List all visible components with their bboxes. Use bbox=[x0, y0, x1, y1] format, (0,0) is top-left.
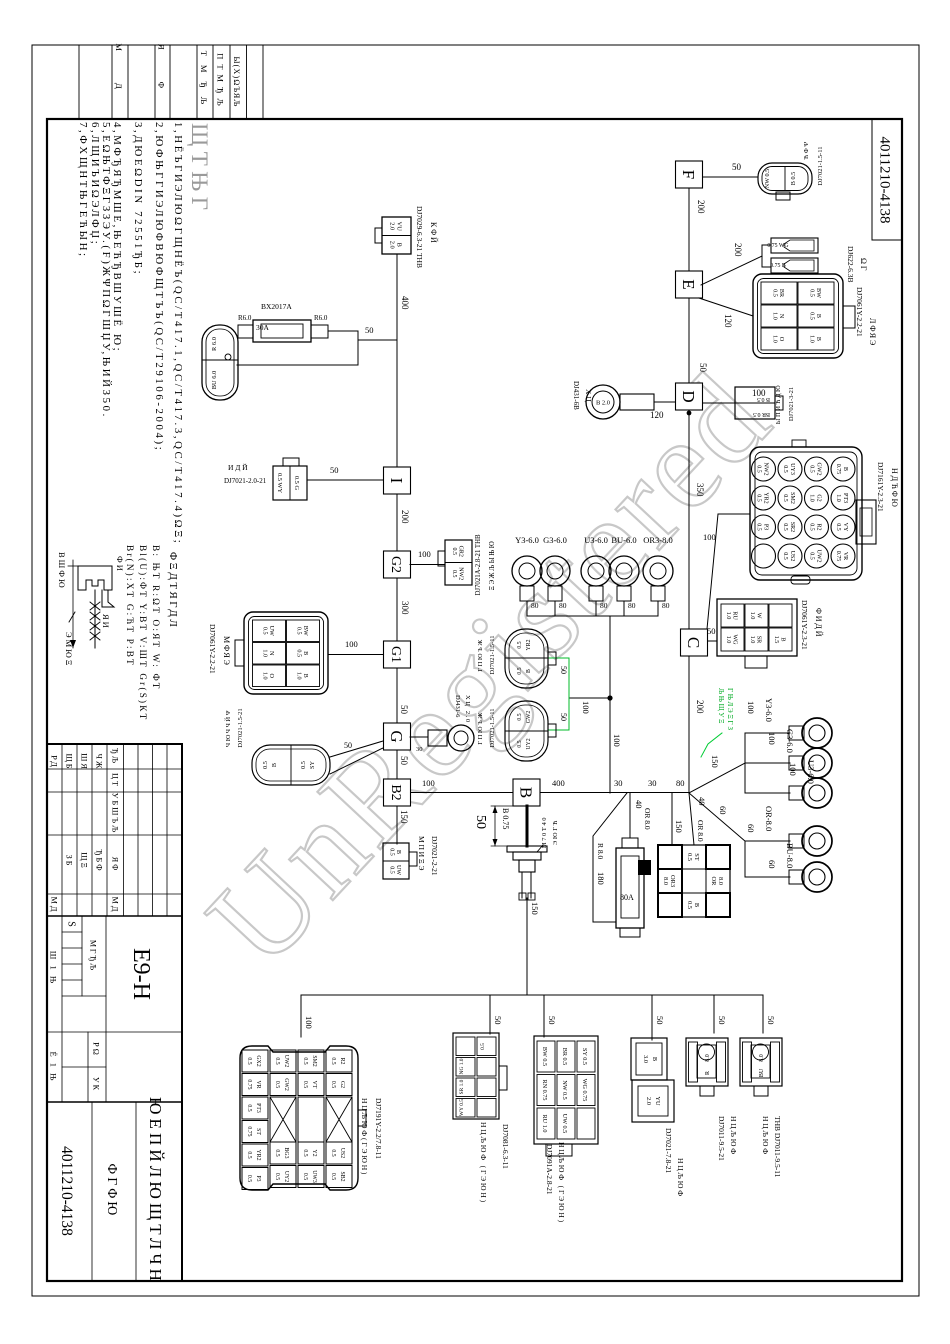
svg-text:РΩ: РΩ bbox=[92, 1042, 101, 1057]
svg-text:DJ622-6.3B: DJ622-6.3B bbox=[846, 246, 855, 282]
pin circle r3c2 bbox=[778, 486, 802, 510]
svg-text:0.5: 0.5 bbox=[302, 1149, 308, 1156]
svg-text:30: 30 bbox=[648, 778, 657, 788]
9pin cell r3c3 bbox=[537, 1108, 555, 1139]
pin circle r1c3 bbox=[831, 515, 855, 539]
svg-text:0.5: 0.5 bbox=[330, 1149, 336, 1156]
svg-text:50: 50 bbox=[547, 1016, 557, 1025]
19pin cell r2-2 bbox=[298, 1074, 324, 1096]
svg-text:50: 50 bbox=[732, 162, 742, 172]
19pin cell r4-1 bbox=[242, 1050, 268, 1072]
svg-text:0.5: 0.5 bbox=[330, 1081, 336, 1088]
svg-text:ΦΞДТЯГДЛ: ΦΞДТЯГДЛ bbox=[167, 552, 179, 629]
svg-text:0.5: 0.5 bbox=[274, 1057, 280, 1064]
svg-text:DJ7029-6.3-21 THB: DJ7029-6.3-21 THB bbox=[415, 206, 424, 268]
svg-text:BW0.5: BW0.5 bbox=[808, 288, 822, 298]
svg-text:0.5: 0.5 bbox=[246, 1175, 252, 1182]
svg-text:МД: МД bbox=[50, 897, 59, 914]
svg-text:100: 100 bbox=[746, 701, 756, 714]
svg-text:BG3: BG3 bbox=[283, 1148, 289, 1159]
svg-text:DJ7021-1.5-11: DJ7021-1.5-11 bbox=[489, 709, 496, 748]
svg-text:МД: МД bbox=[114, 43, 124, 120]
node C bbox=[681, 629, 708, 656]
svg-text:150: 150 bbox=[399, 810, 409, 824]
svg-text:G3-6.0: G3-6.0 bbox=[543, 535, 567, 545]
svg-text:40: 40 bbox=[634, 800, 644, 809]
green wire to starter connectors bbox=[568, 658, 570, 730]
drawing number box top-left bbox=[872, 119, 902, 240]
svg-text:B 0.5: B 0.5 bbox=[790, 172, 797, 185]
svg-text:0.5: 0.5 bbox=[330, 1057, 336, 1064]
junction J1 diagonals to ring group A bbox=[689, 763, 745, 793]
svg-text:МПИΞЭ: МПИΞЭ bbox=[417, 836, 426, 872]
svg-text:400: 400 bbox=[552, 778, 565, 788]
svg-text:100: 100 bbox=[767, 732, 777, 745]
svg-text:ГЊЛЭΞГЗ: ГЊЛЭΞГЗ bbox=[726, 688, 734, 732]
connector DJ7191Y-2.2/7.8-11 接室内线束 19-pin bbox=[240, 1046, 358, 1190]
svg-text:400: 400 bbox=[400, 296, 410, 310]
tab of 9-pin bbox=[546, 1144, 572, 1156]
svg-text:0.75: 0.75 bbox=[246, 1126, 252, 1136]
8pin cell top 2 bbox=[477, 1058, 496, 1077]
svg-text:ПТМЂЉ: ПТМЂЉ bbox=[216, 53, 226, 111]
8pin cell bottom 3 bbox=[456, 1078, 475, 1097]
latch of 右前大灯 bbox=[843, 306, 855, 328]
svg-text:B 2.0: B 2.0 bbox=[596, 400, 610, 407]
svg-text:50: 50 bbox=[473, 815, 488, 829]
junction dot J2 bbox=[607, 695, 612, 700]
svg-text:120: 120 bbox=[723, 314, 733, 328]
grommet 过线胶圈 bbox=[507, 846, 547, 852]
svg-text:D: D bbox=[679, 390, 698, 402]
svg-text:0.5 G: 0.5 G bbox=[293, 476, 300, 491]
svg-text:0.5: 0.5 bbox=[246, 1151, 252, 1158]
svg-text:50: 50 bbox=[698, 363, 708, 373]
connector 启动器控制 DJ7021-1.5-11 (A) bbox=[505, 629, 548, 688]
svg-text:ТМЂЉ: ТМЂЉ bbox=[199, 51, 209, 113]
wire stub to ring OR-8.0 bbox=[745, 840, 790, 842]
svg-text:0.5 WY: 0.5 WY bbox=[276, 473, 283, 494]
svg-text:ΞЭЖЉЫЊЮ: ΞЭЖЉЫЊЮ bbox=[489, 540, 496, 591]
pin circle r1c2 bbox=[831, 486, 855, 510]
svg-text:ЗБ: ЗБ bbox=[65, 855, 74, 868]
notches of 16-pin connector bbox=[792, 440, 806, 447]
wire J4 to relay block (150) bbox=[671, 793, 673, 845]
wire D to ground ring 搭铁 bbox=[654, 401, 675, 403]
svg-text:ЮЕПЙЛЮЩТЛЧН: ЮЕПЙЛЮЩТЛЧН bbox=[146, 1097, 165, 1285]
svg-text:W1.0: W1.0 bbox=[749, 612, 763, 620]
svg-text:ЩΞ: ЩΞ bbox=[80, 852, 89, 870]
svg-text:DJ7021-2.0-21: DJ7021-2.0-21 bbox=[224, 477, 267, 485]
connector 接电喷附线 DJ7161Y-2.3-21 (16-pin) bbox=[750, 447, 862, 580]
svg-text:WG 0.75: WG 0.75 bbox=[581, 1079, 588, 1102]
pin circle r1c4 bbox=[831, 544, 855, 568]
19pin cell r1-4 bbox=[326, 1142, 352, 1164]
svg-text:50: 50 bbox=[330, 465, 339, 475]
svg-text:R 8.0: R 8.0 bbox=[596, 843, 605, 860]
horn bracket wire bbox=[762, 245, 771, 267]
svg-text:80: 80 bbox=[559, 601, 567, 610]
19pin cell r2-4 bbox=[298, 1142, 324, 1164]
ring terminal OR3-8.0 bbox=[643, 556, 673, 586]
svg-text:Ё 1 Њ: Ё 1 Њ bbox=[49, 1051, 59, 1082]
svg-text:80: 80 bbox=[531, 601, 539, 610]
svg-text:Ш 1 Њ: Ш 1 Њ bbox=[49, 951, 59, 986]
wire J2 down to green branch bbox=[569, 697, 610, 699]
node B bbox=[513, 779, 540, 806]
svg-text:150: 150 bbox=[530, 902, 540, 915]
svg-text:G: G bbox=[387, 730, 406, 742]
thick wire B 0.75 from node B bbox=[526, 806, 529, 846]
svg-text:NG 1.0: NG 1.0 bbox=[459, 1058, 465, 1074]
svg-text:3,ДЮЕΩDIN 72551ЂБ;: 3,ДЮЕΩDIN 72551ЂБ; bbox=[132, 122, 144, 276]
latch of wiper connector bbox=[745, 656, 767, 668]
inner drawing frame bbox=[47, 119, 902, 1281]
svg-text:1,НЁЪГИЭЛЮΩГЩНЁЪ(QC/T417.1,QC/: 1,НЁЪГИЭЛЮΩГЩНЁЪ(QC/T417.1,QC/T417.3,QC/… bbox=[172, 122, 184, 545]
svg-text:B: B bbox=[271, 763, 278, 767]
svg-text:VR: VR bbox=[255, 1080, 261, 1088]
latch of 16-pin connector bbox=[856, 500, 876, 544]
svg-text:МФЯЭ: МФЯЭ bbox=[222, 636, 231, 667]
pin circle r4c1 bbox=[752, 457, 776, 481]
9pin cell r2c3 bbox=[557, 1108, 575, 1139]
19pin cell r2-5 bbox=[298, 1166, 324, 1188]
19pin cell r3-1 bbox=[270, 1050, 296, 1072]
blade terminal 喇叭 0.75 WG bbox=[771, 238, 818, 253]
svg-text:DJ7021-1.5-21: DJ7021-1.5-21 bbox=[237, 708, 244, 747]
terminal R 6.0 / BU 6.0 (oval connector) bbox=[202, 325, 238, 400]
9pin cell r2c2 bbox=[557, 1075, 575, 1106]
svg-text:YU: YU bbox=[654, 1096, 661, 1106]
dimension limit label 尺寸界限 bbox=[72, 560, 74, 648]
tab of 8-pin bbox=[499, 1066, 507, 1090]
svg-text:150: 150 bbox=[710, 755, 720, 768]
svg-text:ST0.5: ST0.5 bbox=[686, 853, 700, 861]
svg-text:BU-8.0: BU-8.0 bbox=[785, 843, 795, 868]
svg-text:0.5: 0.5 bbox=[517, 641, 523, 648]
pin circle r2c4 bbox=[805, 544, 829, 568]
wire rail2 fan-I bbox=[396, 254, 398, 467]
8pin cell bottom 4 bbox=[456, 1099, 475, 1118]
svg-text:50: 50 bbox=[717, 1016, 727, 1025]
svg-text:NW 0.5: NW 0.5 bbox=[561, 1080, 568, 1099]
svg-text:30A: 30A bbox=[256, 323, 270, 332]
ring terminal G3-6.0 bbox=[802, 748, 832, 778]
connector 冷风机 DJ7029-6.3-21 THB bbox=[382, 217, 411, 254]
wire rail1 C-J1 bbox=[688, 656, 690, 793]
wire I to charger (50) bbox=[307, 479, 383, 481]
svg-text:200: 200 bbox=[696, 200, 706, 214]
connector DJ7011-9.5-11 接室内线束 THB (8.0 BU) bbox=[740, 1038, 782, 1086]
svg-text:0.5: 0.5 bbox=[517, 740, 523, 747]
svg-text:SR 1.0: SR 1.0 bbox=[459, 1079, 465, 1094]
wire F to washer connector bbox=[703, 176, 758, 178]
svg-text:НЦЉЮФ (ГЭЮН): НЦЉЮФ (ГЭЮН) bbox=[479, 1122, 488, 1204]
latch of 左前大灯 bbox=[235, 640, 244, 666]
svg-text:YR2: YR2 bbox=[255, 1150, 261, 1161]
wire grommet to bus (150) bbox=[526, 898, 528, 995]
svg-text:8.0: 8.0 bbox=[759, 1054, 765, 1062]
small circle between terminals bbox=[225, 354, 231, 360]
svg-text:ГПЮЪЖ: ГПЮЪЖ bbox=[477, 711, 484, 745]
svg-text:B: B bbox=[526, 669, 532, 673]
svg-text:РД: РД bbox=[50, 755, 59, 769]
svg-text:ЉЊЩУΞ: ЉЊЩУΞ bbox=[717, 688, 725, 725]
svg-text:8.0: 8.0 bbox=[705, 1054, 711, 1062]
svg-text:ΩГ: ΩГ bbox=[859, 258, 868, 272]
svg-text:BR 0.5: BR 0.5 bbox=[753, 411, 770, 417]
svg-text:МГЂЉ: МГЂЉ bbox=[89, 940, 98, 972]
svg-text:ΦИДЙ: ΦИДЙ bbox=[814, 608, 823, 638]
svg-text:100: 100 bbox=[345, 639, 358, 649]
svg-text:UY2: UY2 bbox=[526, 738, 532, 749]
svg-text:P3: P3 bbox=[255, 1175, 261, 1181]
svg-text:50: 50 bbox=[559, 713, 568, 721]
connector DJ7011-9.5-21 接室内线束 (8.0 R) bbox=[686, 1038, 728, 1086]
wire rail1 E-D bbox=[688, 298, 690, 383]
8pin cell bottom 1 bbox=[456, 1037, 475, 1056]
wire stub to ring Y3-6.0 bbox=[745, 732, 790, 734]
svg-text:PT31.0: PT31.0 bbox=[835, 493, 848, 503]
ring terminal U3-6.0 bbox=[581, 556, 611, 586]
bus line to cabin connectors bbox=[301, 994, 763, 996]
9pin cell r1c2 bbox=[577, 1075, 595, 1106]
svg-text:ЂБФ: ЂБФ bbox=[95, 849, 104, 872]
svg-text:0.5: 0.5 bbox=[517, 713, 523, 720]
svg-text:GX2: GX2 bbox=[255, 1055, 261, 1066]
pin circle r2c1 bbox=[805, 457, 829, 481]
svg-text:DJ7161Y-2.3-21: DJ7161Y-2.3-21 bbox=[876, 462, 885, 512]
svg-text:US20.5: US20.5 bbox=[782, 551, 795, 562]
wire C to wiper motor bbox=[708, 640, 718, 642]
svg-text:DJ7021-1.5-11: DJ7021-1.5-11 bbox=[489, 636, 496, 675]
19pin cell r3-4 bbox=[270, 1142, 296, 1164]
svg-text:G2: G2 bbox=[339, 1081, 345, 1088]
wires G to 刹车油位指示 bbox=[330, 741, 383, 757]
svg-text:ЛФЯЭ: ЛФЯЭ bbox=[868, 318, 877, 347]
wire rail2 G-B2 bbox=[396, 750, 398, 779]
svg-text:ВШФЮ: ВШФЮ bbox=[57, 552, 67, 590]
connector 左前大灯 DJ7061Y-2.2-21 (6-pin) bbox=[244, 612, 328, 694]
relay/fuse block (ST/OR3/OR/B) bbox=[658, 845, 730, 917]
node D bbox=[676, 383, 703, 410]
svg-text:100: 100 bbox=[418, 549, 431, 559]
wire vertical rail J1-B bbox=[540, 792, 689, 794]
svg-text:80A: 80A bbox=[620, 893, 634, 902]
svg-text:Y2: Y2 bbox=[311, 1149, 317, 1156]
connector 充电机 DJ7021-2.0-21 bbox=[273, 466, 307, 500]
svg-text:60: 60 bbox=[718, 806, 728, 815]
svg-text:GW2: GW2 bbox=[283, 1078, 289, 1091]
bracket line of 5-ring column bbox=[527, 615, 658, 617]
wire D to starter relay connector bbox=[703, 402, 736, 404]
svg-text:0.75 WG: 0.75 WG bbox=[767, 243, 788, 249]
svg-text:BW0.5: BW0.5 bbox=[295, 626, 309, 636]
ground stub bbox=[428, 730, 447, 746]
svg-text:0.5: 0.5 bbox=[300, 761, 307, 769]
svg-text:ЂЉ: ЂЉ bbox=[111, 748, 120, 765]
svg-text:2.0: 2.0 bbox=[645, 1097, 652, 1105]
svg-text:BX2017A: BX2017A bbox=[261, 302, 292, 311]
svg-text:200: 200 bbox=[695, 700, 705, 714]
svg-text:B 0.75: B 0.75 bbox=[501, 808, 510, 829]
19pin cell r3-2 bbox=[270, 1074, 296, 1096]
pin circle r2c3 bbox=[805, 515, 829, 539]
svg-text:UY2: UY2 bbox=[283, 1171, 289, 1182]
pin circle r4c3 bbox=[752, 515, 776, 539]
svg-text:НДЋΦЮ: НДЋΦЮ bbox=[890, 468, 899, 509]
svg-text:DJ7191Y-2.2/7.8-11: DJ7191Y-2.2/7.8-11 bbox=[374, 1098, 383, 1159]
svg-text:BR 0.5: BR 0.5 bbox=[561, 1048, 568, 1066]
latch of 19-pin bbox=[358, 1110, 366, 1126]
svg-text:ЧЖ: ЧЖ bbox=[95, 754, 104, 771]
svg-text:3.0: 3.0 bbox=[642, 1055, 649, 1063]
connector 启动器控制 DJ7021-1.5-11 (B) bbox=[505, 701, 548, 761]
ring terminal Y3-6.0 bbox=[512, 556, 542, 586]
node F bbox=[676, 161, 703, 188]
connector 右前大灯 DJ7061Y-2.2-21 (6-pin) bbox=[753, 274, 843, 358]
svg-text:2,ЮФЊГГИЭЛЮΦВЮФЩТЪЪ(QC/T29106-: 2,ЮФЊГГИЭЛЮΦВЮФЩТЪЪ(QC/T29106-2004); bbox=[153, 122, 165, 452]
svg-text:R6.0: R6.0 bbox=[314, 314, 328, 322]
svg-text:0.5: 0.5 bbox=[274, 1173, 280, 1180]
svg-text:DJ7021-3-21: DJ7021-3-21 bbox=[788, 387, 795, 421]
8pin cell top 3 bbox=[477, 1078, 496, 1097]
svg-text:DJ7081-6.3-11: DJ7081-6.3-11 bbox=[501, 1124, 510, 1169]
ring terminal OR-8.0 bbox=[802, 826, 832, 856]
bus drop wire at y=649 bbox=[300, 995, 302, 1037]
wire J3 to fuse 80A (40 / OR 8.0) bbox=[629, 793, 631, 838]
svg-text:RU 1.0: RU 1.0 bbox=[541, 1115, 548, 1133]
title block bbox=[47, 744, 182, 1281]
19pin cell r3-5 bbox=[270, 1166, 296, 1188]
wire 16-pin to C (100) bbox=[707, 514, 750, 629]
connector DJ7091A-2.8-21 接室内线束 9-pin bbox=[534, 1036, 598, 1144]
svg-text:WY 0.5: WY 0.5 bbox=[459, 1099, 465, 1116]
ground ring terminal 搭铁 DJ431-6 bbox=[448, 725, 474, 751]
svg-text:BU: BU bbox=[759, 1068, 765, 1077]
pin circle r3c4 bbox=[778, 544, 802, 568]
node I bbox=[384, 467, 411, 494]
svg-text:VT: VT bbox=[311, 1081, 317, 1089]
svg-text:ЩТЊГ: ЩТЊГ bbox=[187, 123, 212, 216]
19pin cell r2-1 bbox=[298, 1050, 324, 1072]
wire G1 to left headlamp (100) bbox=[328, 654, 383, 656]
dot junction near D bbox=[687, 411, 692, 416]
connector 刹车油位指示 DJ7021-1.5-21 (stadium) bbox=[252, 745, 330, 785]
svg-text:DJ7021-2-21: DJ7021-2-21 bbox=[430, 836, 439, 876]
8pin cell top 4 bbox=[477, 1099, 496, 1118]
bracket ring group A bbox=[744, 733, 746, 793]
wire G2 to sensor (100) bbox=[410, 564, 445, 566]
wire to fuse lower path (R 8.0 / 180) bbox=[593, 793, 627, 922]
svg-text:E9-H: E9-H bbox=[128, 948, 154, 1000]
svg-text:OR 8.0: OR 8.0 bbox=[696, 820, 705, 842]
pin circle r4c2 bbox=[752, 486, 776, 510]
svg-text:ЦТ: ЦТ bbox=[111, 773, 120, 788]
svg-text:ФГΦЮ: ФГΦЮ bbox=[105, 1163, 120, 1218]
svg-text:50: 50 bbox=[493, 1016, 503, 1025]
9pin cell r3c2 bbox=[537, 1075, 555, 1106]
wire rail2 I-G2 bbox=[396, 494, 398, 551]
wire branch to fuse BX2017A bbox=[358, 339, 397, 341]
19pin cell r1-3 bbox=[326, 1097, 352, 1142]
svg-text:4011210-4138: 4011210-4138 bbox=[58, 1146, 75, 1236]
svg-text:50: 50 bbox=[707, 626, 716, 636]
svg-text:30: 30 bbox=[416, 746, 423, 753]
svg-text:0.5: 0.5 bbox=[246, 1104, 252, 1111]
svg-text:OR 8.0: OR 8.0 bbox=[643, 808, 652, 830]
connector 喷水壶 DJ7021-1.5-11 (2-pin oval) bbox=[758, 163, 812, 194]
node B2 bbox=[384, 779, 411, 806]
svg-text:60: 60 bbox=[746, 824, 756, 833]
connector 左侧转向灯 DJ7021-2-21 bbox=[383, 843, 409, 879]
9pin cell r1c3 bbox=[577, 1108, 595, 1139]
19pin cell r4-6 bbox=[242, 1168, 268, 1190]
ground ring terminal B 2.0 bbox=[586, 385, 620, 419]
svg-text:Y3-6.0: Y3-6.0 bbox=[764, 698, 774, 722]
svg-text:180: 180 bbox=[596, 872, 606, 885]
svg-text:R 6.0: R 6.0 bbox=[211, 337, 218, 351]
svg-text:НЦЉЮФ (ГЭЮН): НЦЉЮФ (ГЭЮН) bbox=[557, 1142, 566, 1224]
wire E to horn (diagonal) bbox=[701, 256, 762, 285]
svg-text:DJ7061Y-2.3-21: DJ7061Y-2.3-21 bbox=[800, 600, 809, 650]
svg-text:ЯΦ: ЯΦ bbox=[111, 857, 120, 872]
svg-text:300: 300 bbox=[400, 601, 410, 615]
9pin cell r1c1 bbox=[577, 1041, 595, 1072]
ring terminal BU-6.0 bbox=[609, 556, 639, 586]
svg-text:OR-8.0: OR-8.0 bbox=[764, 806, 774, 831]
svg-text:B2: B2 bbox=[388, 784, 403, 800]
svg-text:100: 100 bbox=[581, 701, 591, 714]
svg-text:PT3: PT3 bbox=[255, 1103, 261, 1113]
fuse 80A body bbox=[622, 838, 638, 848]
svg-text:RU1.0: RU1.0 bbox=[725, 611, 739, 620]
19pin cell r2-3 bbox=[298, 1097, 324, 1142]
svg-text:UW 0.5: UW 0.5 bbox=[561, 1114, 568, 1133]
wire stub to ring U3-6.0 bbox=[745, 792, 790, 794]
svg-text:R: R bbox=[705, 1071, 711, 1075]
svg-text:UW3: UW3 bbox=[311, 1170, 317, 1183]
ring terminal Y3-6.0 bbox=[802, 718, 832, 748]
svg-text:7,ФХЩНТЊГЕЋЫН;: 7,ФХЩНТЊГЕЋЫН; bbox=[77, 122, 89, 259]
svg-text:ФИ: ФИ bbox=[115, 556, 125, 573]
9pin cell r2c1 bbox=[557, 1041, 575, 1072]
svg-text:DJ7061Y-2.2-21: DJ7061Y-2.2-21 bbox=[855, 287, 864, 337]
svg-text:50: 50 bbox=[399, 756, 409, 766]
svg-text:G2: G2 bbox=[388, 556, 403, 573]
19pin cell r4-4 bbox=[242, 1121, 268, 1143]
svg-text:R20.5: R20.5 bbox=[809, 523, 822, 531]
svg-text:Br(N):ХТ G:ЋТ P:ВТ: Br(N):ХТ G:ЋТ P:ВТ bbox=[125, 545, 135, 667]
ring terminal U3-6.0 bbox=[802, 778, 832, 808]
svg-text:0.75 B: 0.75 B bbox=[770, 263, 786, 269]
svg-text:30: 30 bbox=[614, 778, 623, 788]
ring terminal BU-8.0 bbox=[802, 862, 832, 892]
svg-text:RN 0.75: RN 0.75 bbox=[541, 1080, 548, 1101]
svg-text:B: B bbox=[651, 1057, 658, 1061]
19pin cell r4-3 bbox=[242, 1097, 268, 1119]
svg-text:ЋФΨ: ЋФΨ bbox=[803, 140, 810, 160]
svg-text:6,ЛЩИЪИΩЭЛФЏ;: 6,ЛЩИЪИΩЭЛФЏ; bbox=[89, 122, 101, 246]
svg-text:SY 0.5: SY 0.5 bbox=[581, 1048, 588, 1065]
svg-text:C: C bbox=[684, 637, 703, 648]
svg-text:100: 100 bbox=[788, 763, 798, 776]
svg-text:ЭЮГЋ: ЭЮГЋ bbox=[552, 819, 559, 845]
wire G to ground ring bbox=[410, 736, 428, 738]
svg-text:DJ431-6B: DJ431-6B bbox=[572, 381, 580, 410]
connector 进气温度传感器 DJ7021A-2.8-21 THB bbox=[445, 540, 472, 585]
svg-text:S: S bbox=[66, 921, 77, 927]
